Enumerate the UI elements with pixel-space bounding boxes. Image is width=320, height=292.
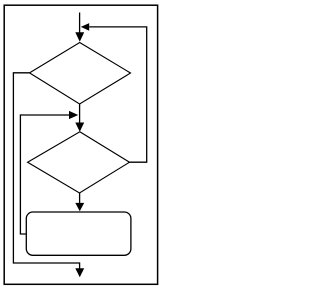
- arrow into D2: [75, 123, 84, 132]
- decision diamond D1: [30, 43, 131, 105]
- wire D1 left exit: left at y=72.8, down at x=13.4, right along y=263, stem down: [13, 73, 79, 269]
- process box rounded rectangle: [26, 212, 131, 255]
- arrow right into junction between D1 and D2: [69, 111, 78, 119]
- wire D2 bottom to process box: [79, 193, 81, 204]
- page border frame: [4, 5, 157, 284]
- wire outer loop-back: D2 right vertex right, up at x=146.7, left along y=26.9: [89, 27, 147, 162]
- arrow into process box: [75, 203, 84, 211]
- arrow left into entry junction: [81, 23, 89, 31]
- wire entry vertical: [79, 13, 81, 33]
- wire inner loop-back: from box left side, left, up at x=20.4, right along y=115: [20, 115, 69, 234]
- exit arrow down: [75, 268, 84, 277]
- wire D1 bottom to D2 top: [79, 104, 81, 123]
- decision diamond D2: [28, 132, 130, 193]
- arrow into D1: [75, 32, 84, 42]
